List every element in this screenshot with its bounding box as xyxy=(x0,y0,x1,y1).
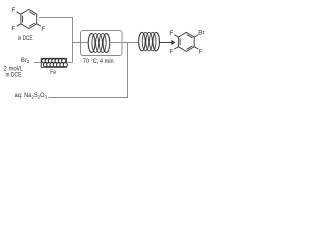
arrow to product xyxy=(160,42,172,44)
svg-text:70 °C, 4 min: 70 °C, 4 min xyxy=(83,58,114,65)
reactor coil xyxy=(88,34,110,53)
wire: reactor to quench coil xyxy=(122,42,139,44)
wire: Fe column outlet to junction xyxy=(67,62,73,64)
svg-text:in DCE: in DCE xyxy=(6,72,22,79)
svg-text:Br: Br xyxy=(198,29,204,36)
svg-text:F: F xyxy=(11,7,15,14)
product substituent labels xyxy=(169,29,204,55)
reactant ring (1,2,4-trifluorobenzene) xyxy=(17,9,41,28)
svg-text:in DCE: in DCE xyxy=(18,35,33,42)
svg-text:F: F xyxy=(169,49,173,56)
wire: reactant feed to junction xyxy=(39,18,73,63)
wire: Br2 feed into Fe column xyxy=(34,62,41,64)
quench coil xyxy=(139,32,160,50)
product ring (1-bromo-2,4,5-trifluorobenzene) xyxy=(174,32,198,51)
Fe packed-bed column xyxy=(41,58,67,67)
svg-text:F: F xyxy=(11,26,15,33)
wire: junction to reactor xyxy=(73,42,89,44)
svg-text:F: F xyxy=(199,49,203,56)
svg-text:F: F xyxy=(41,26,45,33)
wire: quench feed line xyxy=(49,43,128,98)
reactor box xyxy=(81,31,123,56)
wire: coil stub inside reactor box xyxy=(110,42,122,44)
svg-text:F: F xyxy=(169,30,173,37)
svg-text:aq. Na2S2O3: aq. Na2S2O3 xyxy=(15,92,48,99)
svg-text:Fe: Fe xyxy=(50,70,56,76)
reactant F labels xyxy=(11,7,45,33)
